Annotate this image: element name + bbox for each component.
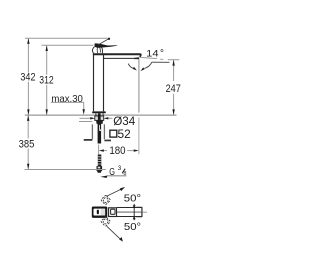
hose end tick right (104, 140, 111, 142)
spout tube top line (117, 207, 142, 209)
dim 247 extension line top (168, 59, 180, 61)
aerator (134, 57, 140, 59)
water stream (138, 59, 140, 112)
rod tail (97, 171, 102, 173)
dashed lever rotated up (101, 195, 111, 205)
dim 312 extension line top (42, 44, 94, 46)
knob slot (97, 210, 99, 214)
spout tube bottom line (117, 216, 142, 218)
dim diameter34 left arrow (90, 117, 95, 119)
rotation arrow up (107, 189, 121, 196)
center extension line (98, 145, 100, 155)
cartridge square (111, 209, 115, 214)
dim 247 line (173, 60, 175, 115)
svg-text:385: 385 (19, 139, 35, 151)
collar notch (98, 167, 101, 169)
lever blade (95, 43, 118, 47)
rod end reference line (25, 169, 106, 171)
shank block (95, 116, 104, 120)
shank outline (96, 113, 103, 116)
centerline (117, 211, 142, 213)
svg-text:52: 52 (118, 127, 132, 141)
extension from spout tip (140, 57, 157, 58)
dim 312 line (46, 45, 48, 114)
dim 180 line right (127, 150, 133, 152)
rod collar (97, 166, 103, 171)
lever knob (plan) (92, 207, 108, 218)
svg-text:3: 3 (118, 165, 122, 172)
svg-text:°: ° (160, 49, 164, 60)
dome right shading (99, 47, 100, 52)
14deg left leader (128, 64, 134, 69)
stream pos lower arrow (133, 216, 136, 220)
raised lever tip dot (108, 38, 110, 40)
dim diameter34 right arrow (104, 117, 109, 119)
stream extension line (138, 118, 140, 155)
central rod below nut (98, 124, 102, 144)
svg-text:Ø34: Ø34 (113, 114, 135, 128)
svg-text:180: 180 (109, 145, 125, 157)
rod white details (98, 125, 101, 131)
stream pos upper arrow (133, 205, 136, 209)
dim diameter34 left line (80, 117, 91, 119)
svg-text:14: 14 (146, 49, 158, 59)
threaded rod G3/8 (98, 155, 102, 167)
cap top thick segments (136, 207, 142, 216)
spout end cap (141, 207, 143, 217)
thread ridges (98, 157, 102, 164)
base flange (92, 111, 106, 113)
dim diameter34 right leader (108, 117, 112, 119)
label square52 symbol (110, 130, 117, 137)
dim 385 line (27, 116, 29, 169)
knob inner window (94, 209, 106, 216)
dome inner join line (96, 47, 98, 54)
faucet body (94, 54, 104, 112)
body box (plan) (109, 208, 117, 217)
max.30 arrow (83, 109, 85, 115)
14deg right leader (144, 62, 151, 68)
max.30 underline and leader (51, 102, 84, 109)
mounting nut (96, 120, 103, 124)
G3/8 underline (107, 175, 126, 177)
G3/8 leader arrow (100, 176, 107, 179)
svg-text:342: 342 (20, 72, 35, 84)
svg-text:247: 247 (166, 83, 181, 95)
top plate (93, 53, 142, 57)
svg-text:max.30: max.30 (51, 94, 83, 105)
svg-text:50°: 50° (124, 222, 141, 233)
14deg text underline (152, 61, 170, 63)
dim 342 line (27, 38, 29, 114)
dashed lever rotated down (101, 217, 111, 227)
deck top line (25, 114, 177, 116)
deck bottom line left segment (79, 121, 92, 123)
knob window right shading (101, 209, 105, 216)
stream position line (133, 204, 135, 220)
shank inner rod (98, 113, 101, 124)
hose end tick left (84, 139, 93, 141)
dim 180 line left (104, 150, 107, 152)
spout underside (104, 57, 135, 59)
svg-text:312: 312 (39, 75, 53, 87)
rotation arrow down (107, 226, 121, 239)
dim 342 extension line top (25, 37, 108, 39)
right hose (103, 124, 105, 139)
left hose (91, 124, 93, 139)
raised lever (thin line) (98, 39, 109, 45)
svg-text:50°: 50° (124, 194, 141, 205)
lever dome (92, 46, 102, 53)
